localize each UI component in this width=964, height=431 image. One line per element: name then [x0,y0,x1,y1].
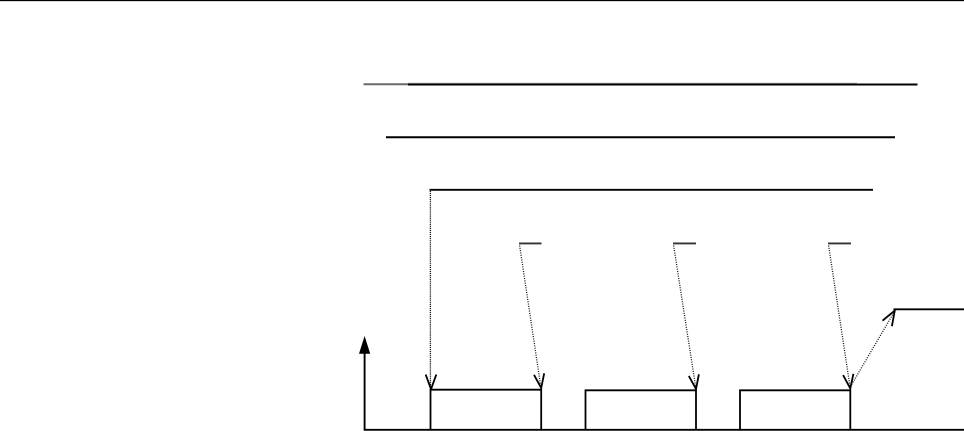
axis vertical [364,352,366,430]
arrowhead 5 [883,311,895,327]
node tick 1 [519,242,542,244]
wire: ruled line 2 [386,136,895,138]
pulse 1 [431,390,542,430]
axis baseline [364,429,964,431]
wire: label leader horizontal [894,308,964,310]
wire: dotted leader vertical [429,191,431,387]
arrowhead 1 [426,375,437,390]
pulse 2 [586,390,697,430]
arrowhead 2 [534,373,544,388]
wire: ruled line 3 [430,189,874,191]
arrowhead 4 [843,374,853,389]
wire: ruled line 1 [408,84,918,86]
page edge bar (top) [0,0,964,1]
node tick 3 [828,242,851,244]
wire: dotted leader 2 [674,246,696,390]
axis arrow [359,337,369,354]
pulse 3 [740,390,850,430]
wire: dotted leader 1 [520,246,541,389]
wire: dotted leader 3 [829,246,851,389]
wire: dotted leader up-right [851,312,895,387]
wire: ruled line 1 gray left segment [364,83,409,85]
arrowhead 3 [689,374,699,389]
node tick 2 [673,242,696,244]
wire: ruled line 1 faint top edge [408,82,857,84]
